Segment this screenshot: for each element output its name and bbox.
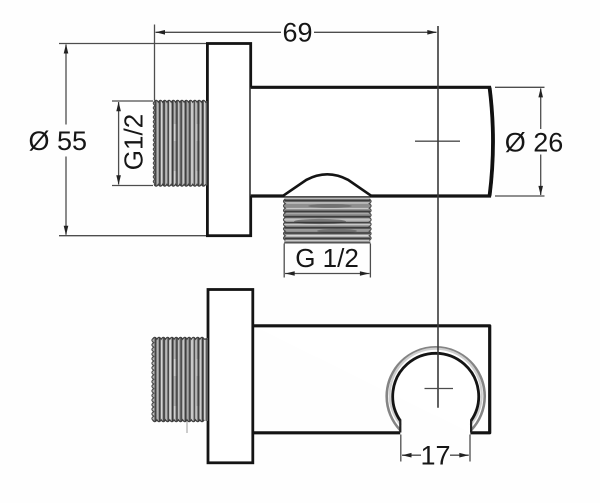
diameter 55 dimension line — [65, 45, 67, 125]
svg-text:Ø 55: Ø 55 — [28, 126, 87, 156]
G 1/2 outlet dimension line — [285, 273, 370, 275]
svg-text:17: 17 — [420, 441, 450, 471]
diameter 55 extension line top — [59, 43, 206, 45]
svg-text:G 1/2: G 1/2 — [295, 243, 359, 273]
svg-text:G1/2: G1/2 — [119, 114, 149, 170]
ring centre tick — [425, 388, 454, 390]
G 1/2 outlet arrows — [285, 271, 295, 276]
diameter 26 extension lines — [495, 86, 545, 88]
svg-text:69: 69 — [282, 18, 312, 48]
diameter 55 extension line bottom — [59, 235, 206, 237]
dimension 69 line — [156, 31, 282, 33]
G1/2 threaded outlet (downward) — [284, 199, 372, 244]
diameter 26 dimension line — [540, 89, 542, 130]
G1/2 thread dimension line — [118, 102, 120, 185]
body (bottom view) — [253, 326, 490, 433]
domed right end cap — [490, 88, 493, 196]
17 dimension extension lines — [400, 435, 402, 462]
holder ring outer (rubber insert) — [387, 347, 485, 430]
vertical centerline through body axis — [437, 26, 439, 408]
wall flange (bottom view) — [208, 290, 253, 463]
holder ring left leg — [399, 420, 401, 433]
G 1/2 outlet dimension extension lines — [283, 244, 285, 278]
wall flange (top view) — [207, 44, 250, 236]
69 dimension left extension line — [154, 25, 156, 101]
17 dimension line — [402, 454, 421, 456]
17 arrows — [402, 453, 412, 458]
svg-text:Ø 26: Ø 26 — [505, 128, 564, 158]
G1/2 threaded inlet (bottom view) — [152, 337, 208, 433]
G1/2 arrows — [116, 102, 121, 112]
G1/2 thread dimension extension lines — [112, 100, 153, 102]
diameter 26 arrows — [538, 88, 543, 98]
body cylinder (top view) — [251, 87, 493, 196]
G1/2 threaded inlet (top view) — [153, 100, 207, 186]
holder ring inner — [393, 353, 479, 420]
holder ring right leg — [470, 420, 472, 433]
diameter 55 arrows — [64, 44, 69, 54]
body bottom edge segments — [253, 431, 400, 434]
outlet boss hump — [283, 174, 372, 196]
dimension 69 arrows — [156, 30, 166, 35]
body centre tick — [415, 140, 460, 142]
